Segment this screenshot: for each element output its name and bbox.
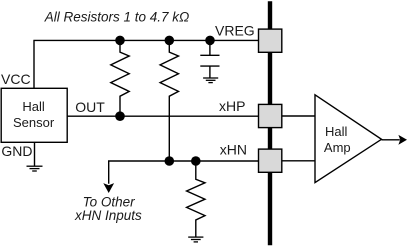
ground: C1 xyxy=(203,78,218,83)
junction: R2 / top rail xyxy=(165,36,175,46)
ground: R3 xyxy=(188,237,203,242)
Hall sensor U1 xyxy=(1,88,67,142)
junction: R2 / xHN xyxy=(165,156,175,166)
svg-text:xHN Inputs: xHN Inputs xyxy=(74,208,142,223)
junction: C1 / top rail xyxy=(205,36,215,46)
resistor R2 xyxy=(160,40,178,161)
arrowhead: output xyxy=(398,135,407,145)
wire: VREG top rail xyxy=(33,39,258,41)
svg-text:Sensor: Sensor xyxy=(13,115,55,130)
wire: Hall amp output xyxy=(382,139,400,141)
svg-text:xHN: xHN xyxy=(220,141,247,157)
wire: xHN pin to Hall amp xyxy=(282,160,315,162)
ground: Hall sensor xyxy=(27,166,43,171)
resistor R3 xyxy=(187,161,205,237)
svg-text:OUT: OUT xyxy=(75,99,105,115)
svg-text:VREG: VREG xyxy=(215,23,255,39)
arrowhead: to other xHN inputs xyxy=(103,183,114,193)
pin VREG xyxy=(259,29,282,52)
junction: R1 / top rail xyxy=(115,36,125,46)
wire: Hall sensor GND lead xyxy=(34,142,36,166)
svg-text:Hall: Hall xyxy=(22,99,45,114)
svg-text:GND: GND xyxy=(1,143,32,159)
op-amp U2 Hall Amp xyxy=(315,95,382,183)
wire: OUT to xHP pin xyxy=(67,115,258,117)
svg-text:Hall: Hall xyxy=(325,124,348,139)
svg-text:All Resistors 1 to 4.7 kΩ: All Resistors 1 to 4.7 kΩ xyxy=(44,9,190,24)
svg-text:Amp: Amp xyxy=(324,140,351,155)
svg-text:xHP: xHP xyxy=(219,98,245,114)
wire: xHP pin to Hall amp xyxy=(282,115,315,117)
junction: R1 / OUT xyxy=(115,111,125,121)
wire: xHN rail xyxy=(109,161,259,184)
note: to other xHN inputs xyxy=(74,194,142,223)
pin xHP xyxy=(259,104,282,127)
resistor R1 xyxy=(111,40,129,116)
wire: VCC from rail to Hall sensor xyxy=(33,40,35,88)
svg-text:VCC: VCC xyxy=(1,71,31,87)
bus: device boundary (thick vertical line) xyxy=(268,1,272,245)
capacitor C1 xyxy=(200,40,219,77)
junction: R3 / xHN xyxy=(191,156,201,166)
pin xHN xyxy=(259,149,282,172)
